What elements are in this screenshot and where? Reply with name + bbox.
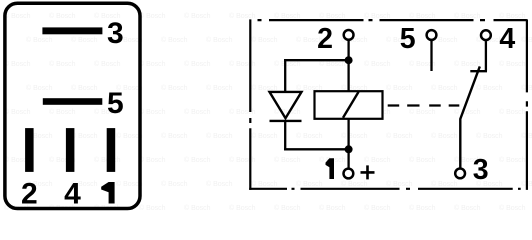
fixed contact bar (470, 70, 487, 72)
svg-text:© Bosch: © Bosch (49, 12, 76, 20)
svg-text:© Bosch: © Bosch (4, 60, 31, 68)
wire: loop left upper segment (284, 59, 286, 93)
plus sign (361, 165, 375, 179)
svg-text:© Bosch: © Bosch (251, 36, 278, 44)
terminal 2 (344, 30, 354, 40)
svg-text:© Bosch: © Bosch (184, 12, 211, 20)
wire: terminal 4 down to contact (485, 41, 487, 71)
svg-text:© Bosch: © Bosch (386, 132, 413, 140)
wire: loop left lower segment (284, 121, 286, 150)
svg-text:© Bosch: © Bosch (431, 180, 458, 188)
svg-text:© Bosch: © Bosch (476, 84, 503, 92)
svg-text:© Bosch: © Bosch (26, 84, 53, 92)
svg-text:© Bosch: © Bosch (431, 132, 458, 140)
relay enclosure left border (dash-dot) (249, 19, 251, 190)
svg-text:3: 3 (473, 154, 489, 186)
svg-text:© Bosch: © Bosch (139, 156, 166, 164)
svg-text:2: 2 (21, 178, 38, 211)
pin 3 blade (42, 27, 102, 34)
svg-text:© Bosch: © Bosch (49, 108, 76, 116)
svg-text:© Bosch: © Bosch (161, 36, 188, 44)
junction B (345, 145, 353, 153)
svg-text:5: 5 (107, 87, 124, 120)
svg-text:© Bosch: © Bosch (499, 156, 526, 164)
svg-text:© Bosch: © Bosch (499, 12, 526, 20)
svg-text:© Bosch: © Bosch (139, 60, 166, 68)
svg-text:© Bosch: © Bosch (409, 204, 436, 212)
relay base outline (5, 3, 140, 208)
svg-text:© Bosch: © Bosch (229, 60, 256, 68)
svg-text:© Bosch: © Bosch (184, 108, 211, 116)
relay coil winding (315, 91, 383, 119)
svg-text:© Bosch: © Bosch (161, 180, 188, 188)
svg-text:© Bosch: © Bosch (251, 132, 278, 140)
svg-text:© Bosch: © Bosch (364, 12, 391, 20)
terminal 1 (344, 169, 354, 179)
svg-text:© Bosch: © Bosch (454, 204, 481, 212)
svg-text:© Bosch: © Bosch (409, 108, 436, 116)
wire: terminal 2 down to junction A (347, 41, 349, 62)
svg-text:© Bosch: © Bosch (71, 132, 98, 140)
svg-text:© Bosch: © Bosch (274, 204, 301, 212)
svg-text:© Bosch: © Bosch (251, 180, 278, 188)
svg-text:© Bosch: © Bosch (499, 108, 526, 116)
terminal 4 (481, 30, 491, 40)
wire: suppression loop top (284, 59, 349, 61)
svg-text:© Bosch: © Bosch (409, 12, 436, 20)
label terminal 1 (326, 158, 335, 179)
svg-text:© Bosch: © Bosch (409, 156, 436, 164)
switch blade (movable contact) (460, 66, 480, 168)
svg-text:© Bosch: © Bosch (386, 180, 413, 188)
svg-text:© Bosch: © Bosch (206, 36, 233, 44)
svg-text:© Bosch: © Bosch (161, 132, 188, 140)
svg-text:© Bosch: © Bosch (71, 84, 98, 92)
mechanical linkage (dashed actuator line) (388, 104, 460, 106)
pin 4 blade (66, 128, 75, 172)
svg-text:© Bosch: © Bosch (319, 12, 346, 20)
svg-text:© Bosch: © Bosch (161, 84, 188, 92)
svg-text:© Bosch: © Bosch (319, 204, 346, 212)
diode V1 (suppression diode) (270, 92, 302, 121)
coil diagonal stroke (343, 92, 359, 118)
svg-text:© Bosch: © Bosch (71, 36, 98, 44)
svg-text:© Bosch: © Bosch (139, 108, 166, 116)
svg-text:© Bosch: © Bosch (476, 132, 503, 140)
svg-text:© Bosch: © Bosch (364, 60, 391, 68)
svg-text:© Bosch: © Bosch (94, 60, 121, 68)
svg-text:© Bosch: © Bosch (454, 12, 481, 20)
svg-text:© Bosch: © Bosch (364, 204, 391, 212)
pin 2 blade (25, 128, 33, 172)
svg-text:© Bosch: © Bosch (184, 204, 211, 212)
relay enclosure top border (dash-dot) (258, 19, 527, 21)
svg-text:5: 5 (400, 23, 416, 55)
svg-text:© Bosch: © Bosch (139, 204, 166, 212)
svg-text:© Bosch: © Bosch (296, 132, 323, 140)
pin 1 blade (107, 128, 116, 172)
svg-text:4: 4 (499, 23, 515, 55)
svg-text:© Bosch: © Bosch (431, 84, 458, 92)
svg-text:© Bosch: © Bosch (26, 36, 53, 44)
svg-text:© Bosch: © Bosch (274, 12, 301, 20)
relay enclosure right border (dash-dot) (526, 19, 528, 190)
svg-text:4: 4 (64, 178, 81, 211)
svg-text:© Bosch: © Bosch (206, 132, 233, 140)
svg-text:2: 2 (317, 23, 333, 55)
wire: suppression loop bottom (284, 148, 349, 150)
svg-text:© Bosch: © Bosch (386, 84, 413, 92)
svg-text:© Bosch: © Bosch (364, 156, 391, 164)
wire: terminal 5 stub (430, 41, 432, 71)
junction A (345, 56, 353, 64)
svg-text:3: 3 (107, 17, 124, 50)
wire: coil down to junction B (347, 119, 349, 150)
svg-text:© Bosch: © Bosch (4, 12, 31, 20)
pin label 1 (101, 182, 114, 204)
terminal 5 (427, 30, 437, 40)
pin 5 blade (43, 98, 103, 105)
svg-text:© Bosch: © Bosch (184, 60, 211, 68)
svg-text:© Bosch: © Bosch (229, 204, 256, 212)
svg-text:© Bosch: © Bosch (229, 156, 256, 164)
relay enclosure bottom border (dash-dot) (249, 188, 521, 190)
svg-text:© Bosch: © Bosch (229, 12, 256, 20)
svg-text:© Bosch: © Bosch (341, 132, 368, 140)
svg-text:© Bosch: © Bosch (4, 108, 31, 116)
svg-text:© Bosch: © Bosch (454, 60, 481, 68)
svg-text:© Bosch: © Bosch (499, 204, 526, 212)
svg-text:© Bosch: © Bosch (139, 12, 166, 20)
svg-text:© Bosch: © Bosch (229, 108, 256, 116)
svg-text:© Bosch: © Bosch (454, 108, 481, 116)
wire: junction A down to coil (347, 60, 349, 91)
svg-text:© Bosch: © Bosch (499, 60, 526, 68)
svg-text:© Bosch: © Bosch (206, 84, 233, 92)
svg-text:© Bosch: © Bosch (296, 180, 323, 188)
svg-text:© Bosch: © Bosch (184, 156, 211, 164)
terminal 3 (455, 169, 465, 179)
svg-text:© Bosch: © Bosch (206, 180, 233, 188)
wire: junction B down to terminal 1 (347, 149, 349, 168)
svg-text:© Bosch: © Bosch (341, 180, 368, 188)
svg-text:© Bosch: © Bosch (274, 156, 301, 164)
svg-text:© Bosch: © Bosch (49, 60, 76, 68)
